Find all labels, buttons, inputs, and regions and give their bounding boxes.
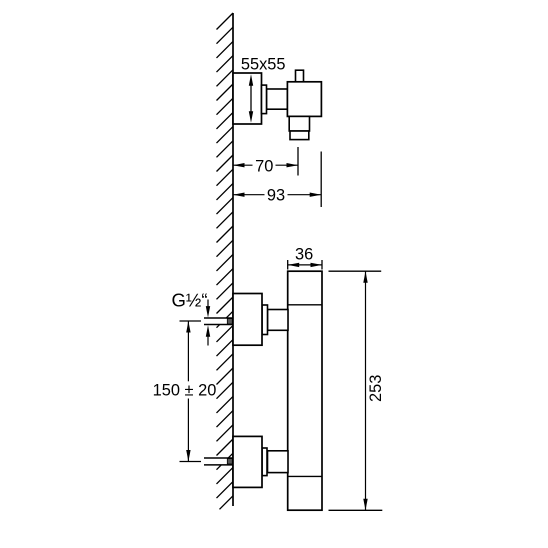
extension line body right (for 93): [320, 152, 322, 208]
mixer body (tall): [288, 271, 322, 510]
svg-text:253: 253: [367, 375, 385, 402]
dimension 70 arrowheads: [233, 163, 298, 167]
svg-text:G½“: G½“: [172, 290, 208, 311]
dimension 36 arrowheads: [288, 263, 322, 267]
dimension 70 line: [233, 164, 298, 166]
wall hatching: [217, 13, 234, 509]
dimension 253 line: [365, 271, 367, 510]
dimension 150 line: [187, 321, 189, 462]
svg-text:93: 93: [267, 187, 285, 205]
dimension 36 line: [288, 264, 322, 266]
extension lines for 36: [288, 260, 322, 270]
dimension 253 arrowheads: [363, 271, 367, 510]
pipe G1/2 lower (through wall): [204, 458, 233, 465]
dimension 150 arrowheads: [186, 321, 190, 462]
upper valve flange: [262, 305, 268, 335]
svg-text:150 ± 20: 150 ± 20: [153, 382, 217, 400]
wall plate 55x55 (top unit): [233, 73, 262, 124]
extension line spout axis (for 70): [297, 147, 299, 176]
extension line upper pipe axis (for 150): [180, 320, 202, 322]
lower valve stem: [268, 451, 289, 473]
top unit stem: [267, 89, 288, 109]
upper valve housing: [233, 294, 262, 346]
lower valve flange: [262, 448, 267, 476]
top unit spout lower part: [290, 131, 309, 140]
upper valve stem: [268, 310, 289, 331]
wall line: [232, 13, 234, 506]
G1/2 arrow lower (up): [206, 325, 210, 345]
svg-text:55x55: 55x55: [241, 56, 286, 74]
dimension 93 line: [233, 194, 321, 196]
extension line lower pipe axis (for 150): [180, 461, 202, 463]
pipe cap upper: [227, 319, 232, 324]
dimension 93 arrowheads: [233, 193, 321, 197]
extension line body bottom (for 253): [329, 509, 383, 511]
mixer body joint line lower: [288, 475, 322, 477]
top unit body: [287, 82, 321, 117]
lower valve housing: [233, 436, 262, 487]
extension line body top (for 253): [329, 270, 382, 272]
mixer body joint line upper: [288, 304, 322, 306]
55 height arrow inside plate: [249, 74, 253, 122]
top unit flange: [262, 85, 267, 114]
svg-text:36: 36: [295, 245, 313, 263]
pipe cap lower: [227, 459, 232, 464]
G1/2 arrow upper (down): [206, 300, 210, 318]
pipe G1/2 upper (through wall): [204, 318, 233, 325]
svg-text:70: 70: [255, 157, 273, 175]
top unit spout upper part: [289, 116, 309, 131]
top unit knob: [296, 70, 304, 82]
